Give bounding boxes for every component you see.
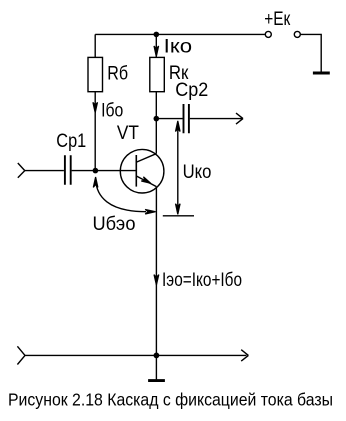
- capacitor Cp1: [65, 155, 71, 185]
- arrow Ubeo up: [93, 177, 98, 187]
- current arrow Ibo: [93, 102, 98, 112]
- wire ground stub: [155, 355, 157, 379]
- ground bottom: [148, 379, 165, 382]
- transistor VT collector diagonal: [137, 154, 157, 162]
- wire collector lead: [155, 119, 157, 154]
- svg-text:Rб: Rб: [107, 63, 128, 85]
- arrow Uko top: [176, 121, 181, 132]
- label +Ek: [264, 8, 290, 30]
- wire Cp1 to base node: [72, 170, 96, 172]
- arc Ubeo: [96, 180, 146, 212]
- wire Rb top lead: [94, 34, 96, 57]
- label Ubeo: [93, 213, 136, 235]
- arrow Ubeo right: [145, 209, 155, 214]
- current arrow Ieo: [154, 275, 159, 285]
- level tick line: [163, 215, 194, 217]
- current arrow Iko: [154, 46, 159, 57]
- input chevron terminal: [18, 163, 25, 178]
- node collector junction: [154, 116, 160, 122]
- svg-text:VT: VT: [117, 122, 139, 144]
- ground top right: [313, 72, 330, 75]
- dimension line Uko: [177, 123, 179, 213]
- caption figure title: [8, 390, 333, 410]
- svg-text:Uбэо: Uбэо: [93, 213, 136, 235]
- svg-text:Ср2: Ср2: [175, 79, 208, 101]
- arrow Uko bottom: [176, 204, 181, 215]
- bottom left chevron terminal: [17, 346, 25, 364]
- wire Rk bottom lead: [155, 92, 157, 119]
- wire Rb bottom lead: [94, 92, 96, 171]
- label Ibo: [101, 100, 123, 122]
- terminal +Ek left circle: [265, 31, 271, 37]
- label Cp2: [175, 79, 208, 101]
- node top junction: [154, 32, 160, 38]
- node bottom junction: [154, 353, 160, 359]
- svg-text:Uко: Uко: [183, 161, 212, 183]
- label Cp1: [56, 130, 86, 152]
- transistor VT circle: [120, 149, 164, 193]
- wire Rk top lead: [155, 34, 157, 57]
- label VT: [117, 122, 139, 144]
- wire output node to Cp2: [156, 118, 182, 120]
- resistor R&#1073;: [88, 57, 103, 91]
- svg-text:+Ек: +Ек: [264, 8, 290, 30]
- label Rk: [169, 62, 189, 84]
- terminal +Ek right circle: [294, 31, 300, 37]
- label Ieo equation: [162, 269, 242, 291]
- svg-text:Iко: Iко: [164, 36, 192, 58]
- svg-text:Ср1: Ср1: [56, 130, 86, 152]
- label Rb: [107, 63, 128, 85]
- wire +Ek to ground: [301, 34, 322, 71]
- label Iko: [164, 36, 192, 58]
- node base junction: [93, 168, 99, 174]
- svg-text:Рисунок 2.18 Каскад с фиксацие: Рисунок 2.18 Каскад с фиксацией тока баз…: [8, 390, 333, 410]
- wire output with arrow: [190, 113, 243, 124]
- transistor VT emitter diagonal: [136, 176, 156, 187]
- label Uko: [183, 161, 212, 183]
- wire base: [95, 170, 136, 172]
- svg-text:Iэо=Iко+Iбо: Iэо=Iко+Iбо: [162, 269, 242, 291]
- wire emitter: [155, 187, 157, 356]
- capacitor Cp2: [184, 104, 189, 133]
- wire bottom rail: [25, 354, 247, 356]
- wire input to Cp1: [25, 170, 64, 172]
- transistor VT emitter arrow: [141, 177, 151, 184]
- svg-text:Iбо: Iбо: [101, 100, 123, 122]
- transistor VT base bar: [135, 155, 137, 187]
- wire top rail: [95, 33, 265, 35]
- bottom right arrow: [241, 350, 248, 361]
- resistor R&#1082;: [150, 57, 165, 91]
